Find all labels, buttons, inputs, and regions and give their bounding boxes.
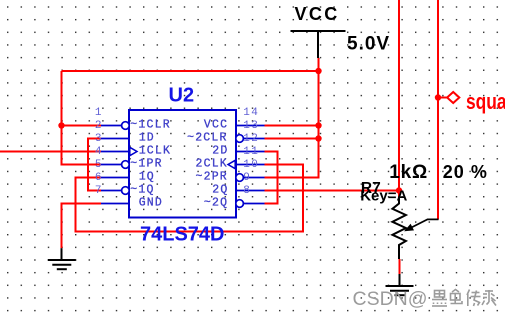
wire R7 bottom to ground: [399, 259, 401, 274]
svg-text:5.0V: 5.0V: [347, 34, 390, 55]
wire VCC lead down: [265, 58, 319, 178]
pin 8 bubble: [236, 200, 244, 208]
pin 6 bubble: [122, 187, 130, 195]
watermark hei glyph: [432, 291, 447, 307]
svg-text:~1CLR: ~1CLR: [130, 119, 171, 132]
svg-text:12: 12: [243, 133, 259, 145]
pin 11 clock triangle: [228, 160, 235, 168]
watermark cheng glyph: [482, 290, 496, 306]
junction top VCC: [315, 68, 321, 74]
svg-text:~2CLR: ~2CLR: [187, 132, 228, 145]
svg-text:9: 9: [243, 172, 251, 184]
pin labels left: [130, 119, 171, 210]
svg-text:10: 10: [243, 159, 259, 171]
junction pin1 tie: [58, 122, 64, 128]
pin 4 bubble: [122, 161, 130, 169]
pin 13 bubble: [236, 135, 244, 143]
svg-text:1D: 1D: [139, 132, 155, 145]
svg-text:1CLK: 1CLK: [139, 145, 171, 158]
potentiometer R7 body: [392, 197, 406, 260]
svg-text:Key=A: Key=A: [360, 188, 407, 205]
svg-text:4: 4: [95, 146, 102, 158]
svg-text:13: 13: [243, 120, 259, 132]
junction 2Q at R7: [396, 187, 402, 193]
op U2 chip body: [129, 110, 236, 218]
svg-text:2D: 2D: [212, 145, 228, 158]
svg-text:11: 11: [243, 146, 259, 158]
junction pin13 rail: [315, 135, 321, 141]
wire 2D to ~2Q feedback: [265, 152, 278, 204]
wire ~1CLR / ~1PR tie: [62, 71, 102, 165]
svg-text:1: 1: [95, 107, 102, 119]
wire vertical wiper feed: [437, 0, 439, 220]
svg-text:74LS74D: 74LS74D: [140, 223, 225, 245]
svg-text:1kΩ: 1kΩ: [389, 162, 428, 183]
svg-text:~1PR: ~1PR: [130, 158, 162, 171]
svg-text:6: 6: [95, 172, 102, 184]
wire 1D to ~1Q feedback: [88, 139, 101, 191]
pin numbers left: [95, 107, 102, 197]
ground left: [48, 248, 76, 269]
wire top horizontal to VCC: [62, 70, 319, 72]
pin 10 bubble: [236, 174, 244, 182]
svg-text:2: 2: [95, 120, 102, 132]
wire 1Q to 2CLK under chip: [76, 165, 304, 232]
svg-text:VCC: VCC: [204, 119, 228, 132]
junction squa tap: [435, 94, 441, 100]
svg-text:GND: GND: [139, 197, 163, 210]
power VCC symbol: [291, 31, 346, 58]
pin stubs left: [101, 126, 129, 204]
svg-text:square_wave: square_wave: [466, 90, 505, 114]
wire 2Q to R7: [265, 190, 400, 192]
svg-text:3: 3: [95, 133, 102, 145]
pin stubs right: [236, 126, 265, 204]
svg-text:5: 5: [95, 159, 102, 171]
pin numbers right: [243, 107, 259, 197]
watermark se glyph: [451, 290, 463, 304]
svg-text:2Q: 2Q: [212, 184, 228, 197]
wire pin 14 to VCC rail: [265, 125, 319, 127]
wire pin 13 to VCC rail: [265, 138, 319, 140]
node squa diamond: [438, 92, 459, 103]
pin labels right: [187, 119, 228, 210]
svg-text:~2Q: ~2Q: [204, 197, 228, 210]
wire vertical R7 top feed: [398, 0, 400, 197]
svg-text:~2PR: ~2PR: [196, 171, 228, 184]
svg-text:VCC: VCC: [295, 4, 340, 24]
pin 1 bubble: [122, 122, 130, 130]
wire to pin 1: [62, 125, 102, 127]
ground right: [386, 274, 414, 295]
svg-text:1Q: 1Q: [139, 171, 155, 184]
svg-text:2CLK: 2CLK: [196, 158, 228, 171]
svg-text:~1Q: ~1Q: [130, 184, 154, 197]
svg-text:8: 8: [243, 185, 251, 197]
watermark chuan glyph: [467, 290, 481, 307]
svg-text:U2: U2: [169, 85, 195, 107]
svg-text:20 %: 20 %: [443, 162, 488, 182]
wire clock input from left: [0, 151, 101, 153]
potentiometer wiper arrow: [406, 219, 439, 230]
svg-text:CSDN@: CSDN@: [353, 288, 428, 310]
junction pin14 rail: [315, 122, 321, 128]
svg-text:14: 14: [243, 107, 259, 119]
svg-text:7: 7: [95, 185, 102, 197]
wire GND pin to ground: [62, 204, 102, 249]
pin 3 clock triangle: [130, 147, 137, 155]
